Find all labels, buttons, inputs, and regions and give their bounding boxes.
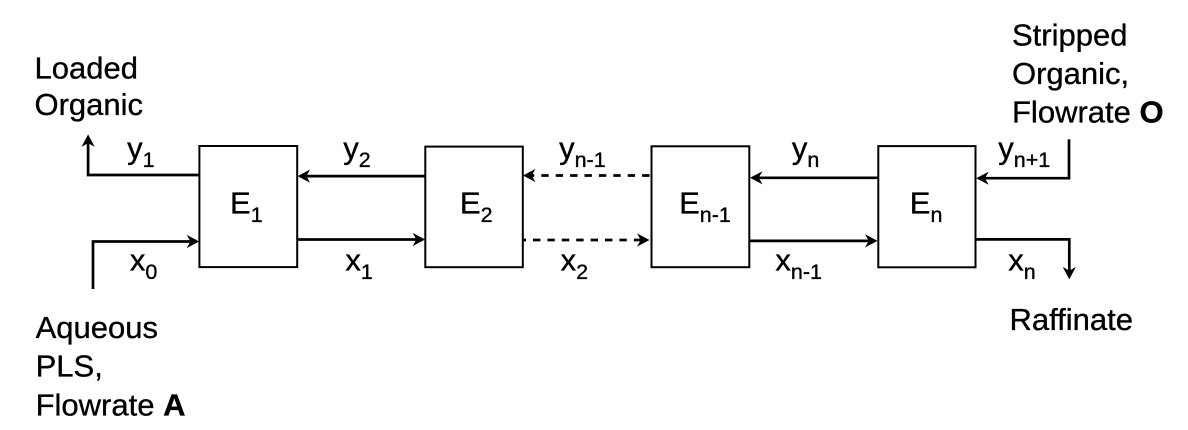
svg-text:Organic: Organic	[35, 87, 144, 122]
svg-text:Aqueous: Aqueous	[36, 310, 158, 345]
svg-text:Raffinate: Raffinate	[1010, 302, 1134, 337]
svg-text:Organic,: Organic,	[1012, 56, 1129, 91]
svg-text:PLS,: PLS,	[36, 349, 103, 384]
svg-text:Flowrate O: Flowrate O	[1012, 95, 1164, 130]
svg-text:Flowrate A: Flowrate A	[36, 387, 186, 422]
svg-text:Stripped: Stripped	[1012, 18, 1127, 53]
svg-text:Loaded: Loaded	[35, 51, 138, 86]
